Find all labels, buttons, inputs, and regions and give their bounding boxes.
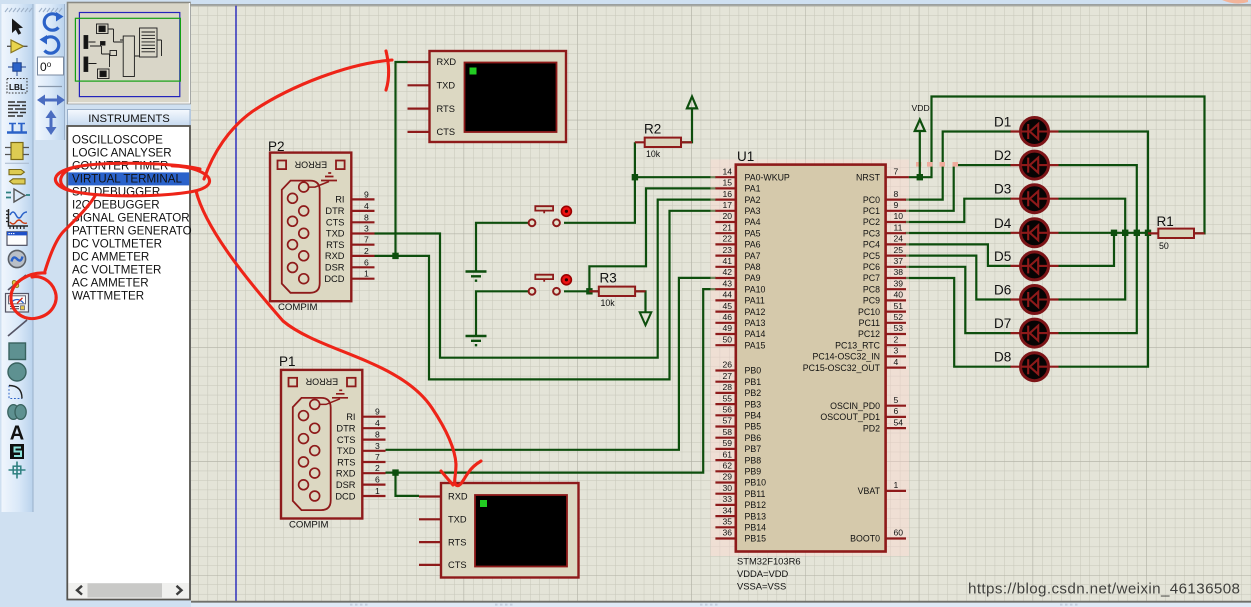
wire U1.PC2 to D3: [905, 199, 1011, 222]
preview sheet rect: [79, 13, 179, 97]
svg-text:11: 11: [894, 222, 903, 232]
wire U1.PC0 to D1: [905, 132, 1011, 200]
svg-text:VDDA=VDD: VDDA=VDD: [737, 568, 789, 579]
svg-text:15: 15: [722, 178, 732, 188]
svg-text:PA14: PA14: [745, 329, 766, 339]
svg-text:PB1: PB1: [745, 377, 762, 387]
P1 DB9 holes: [299, 400, 320, 501]
tb2 icon: rotate clockwise: [44, 14, 58, 30]
svg-text:6: 6: [375, 475, 380, 485]
wire button2 junction to U1.PA1: [564, 188, 716, 291]
svg-text:PA0-WKUP: PA0-WKUP: [745, 172, 790, 182]
svg-text:PA4: PA4: [745, 217, 761, 227]
LED D5: [994, 249, 1059, 280]
svg-text:38: 38: [894, 267, 904, 277]
svg-text:1: 1: [364, 269, 369, 279]
tb icon: text script mode: [8, 102, 26, 116]
svg-text:29: 29: [722, 472, 732, 482]
red stroke from ellipse down to instruments icon circle: [45, 196, 95, 271]
tb icon: chevron tags: [9, 170, 24, 175]
svg-text:U1: U1: [737, 149, 754, 164]
tb icon: junction dot mode: [8, 58, 26, 76]
svg-text:CTS: CTS: [448, 560, 467, 570]
svg-text:56: 56: [722, 405, 732, 415]
svg-text:R3: R3: [600, 271, 617, 286]
wire U1.PC7 to D8: [905, 278, 1011, 367]
U1 left pin stubs PB0-PB15: [715, 371, 735, 539]
svg-text:PA8: PA8: [745, 262, 761, 272]
svg-text:42: 42: [722, 267, 732, 277]
P2 shield ground symbol: [309, 182, 330, 188]
svg-text:61: 61: [722, 449, 732, 459]
wire D8 cathode to bus: [1059, 233, 1149, 367]
svg-text:6: 6: [894, 406, 899, 416]
svg-text:3: 3: [375, 441, 380, 451]
svg-text:PC5: PC5: [863, 251, 880, 261]
tb icon: component mode: [11, 40, 24, 53]
resistor R2: [635, 122, 692, 160]
svg-text:D2: D2: [994, 148, 1011, 163]
svg-text:10: 10: [894, 211, 904, 221]
svg-text:14: 14: [722, 166, 732, 176]
svg-text:3: 3: [894, 346, 899, 356]
svg-text:OSCIN_PD0: OSCIN_PD0: [830, 401, 880, 411]
svg-text:R1: R1: [1157, 214, 1174, 229]
svg-text:PC7: PC7: [863, 273, 880, 283]
junction node P1.RXD: [392, 469, 398, 475]
P2 pin stubs: [351, 199, 374, 278]
junction node LED bus D5: [1111, 230, 1117, 236]
instruments panel header: [68, 110, 191, 127]
ground symbol G1: [466, 272, 487, 281]
wire D7 cathode to bus: [1059, 233, 1137, 333]
svg-text:DSR: DSR: [325, 263, 345, 273]
svg-text:PB11: PB11: [745, 489, 766, 499]
U1 right pin numbers: [894, 166, 904, 537]
wire button2 to ground: [476, 291, 530, 335]
svg-text:CTS: CTS: [437, 127, 456, 137]
preview mini schematic: [84, 24, 162, 79]
junction node P2.RXD: [392, 253, 398, 259]
svg-text:37: 37: [894, 256, 904, 266]
red ellipse around VIRTUAL TERMINAL: [55, 163, 209, 196]
P2 pin numbers: [364, 189, 369, 278]
svg-text:PD2: PD2: [863, 423, 880, 433]
instruments list box: [67, 126, 190, 600]
wire U1.PC5 to D6: [905, 256, 1011, 300]
svg-text:35: 35: [722, 517, 732, 527]
resistor R1: [1148, 214, 1205, 251]
P1 pin labels: [335, 412, 355, 502]
svg-text:23: 23: [722, 245, 732, 255]
svg-text:62: 62: [722, 461, 732, 471]
svg-text:SIGNAL GENERATOR: SIGNAL GENERATOR: [72, 211, 190, 224]
svg-text:TXD: TXD: [448, 515, 467, 525]
tb icon: 2D symbol: [10, 444, 24, 459]
svg-text:VSSA=VSS: VSSA=VSS: [737, 581, 786, 592]
svg-text:2: 2: [894, 334, 899, 344]
svg-text:PA2: PA2: [745, 195, 761, 205]
U1 value labels: [737, 556, 801, 592]
tb2 icon: h-mirror: [44, 99, 58, 102]
U1 selection highlight: [711, 160, 912, 557]
svg-text:43: 43: [722, 278, 732, 288]
svg-text:VBAT: VBAT: [858, 486, 881, 496]
svg-text:50: 50: [1159, 241, 1169, 251]
canvas top strip: [190, 0, 1251, 5]
svg-text:26: 26: [722, 360, 732, 370]
tb icon: selection arrow: [12, 19, 23, 35]
svg-text:PB7: PB7: [745, 444, 762, 454]
svg-text:RTS: RTS: [326, 240, 344, 250]
svg-text:DC VOLTMETER: DC VOLTMETER: [72, 237, 162, 250]
tb2 icon: v-mirror: [50, 117, 53, 128]
svg-text:PA7: PA7: [745, 251, 761, 261]
svg-text:P1: P1: [279, 354, 296, 369]
svg-text:9: 9: [894, 200, 899, 210]
svg-text:9: 9: [375, 407, 380, 417]
P2 DB9 holes: [288, 182, 309, 283]
microcontroller U1 STM32F103R6: [711, 149, 959, 592]
svg-text:59: 59: [722, 438, 732, 448]
svg-text:OSCILLOSCOPE: OSCILLOSCOPE: [72, 133, 163, 146]
svg-text:PC2: PC2: [863, 217, 880, 227]
svg-text:57: 57: [722, 416, 732, 426]
svg-text:PC13_RTC: PC13_RTC: [835, 340, 880, 350]
LEFT-UI: [2, 3, 192, 600]
svg-text:33: 33: [722, 494, 732, 504]
svg-text:D6: D6: [994, 283, 1011, 298]
svg-text:44: 44: [722, 290, 732, 300]
tb icon: virtual instruments mode: [6, 294, 29, 313]
svg-text:7: 7: [375, 452, 380, 462]
svg-text:PB12: PB12: [745, 500, 767, 510]
svg-text:49: 49: [722, 323, 732, 333]
U1 left pin labels: [745, 172, 790, 543]
svg-text:OSCOUT_PD1: OSCOUT_PD1: [820, 412, 880, 422]
svg-text:34: 34: [722, 505, 732, 515]
VDD power arrow (R2): [687, 97, 697, 121]
wire P1.RXD to U1.PA10: [386, 289, 717, 473]
wire U1.NRST to VDD rail and R1: [909, 97, 1205, 234]
wire U1.PC3 to D4: [905, 232, 1011, 234]
svg-text:PA3: PA3: [745, 206, 761, 216]
svg-text:DSR: DSR: [336, 480, 356, 490]
red arrow to VT1 RXD: [204, 60, 392, 179]
ground symbol G2: [466, 336, 487, 345]
wire P2.RXD to U1.PA3: [375, 211, 717, 380]
svg-text:AC AMMETER: AC AMMETER: [72, 276, 149, 289]
svg-text:DCD: DCD: [335, 491, 355, 501]
svg-text:VIRTUAL TERMINAL: VIRTUAL TERMINAL: [72, 172, 183, 185]
svg-text:60: 60: [894, 528, 904, 538]
svg-text:PA6: PA6: [745, 240, 761, 250]
wire D6 cathode to bus: [1059, 233, 1126, 300]
svg-text:BOOT0: BOOT0: [850, 534, 880, 544]
wire VT1.RXD to P2.RXD net: [396, 62, 409, 256]
tb icon: graph mode: [9, 209, 29, 226]
LED D3: [994, 182, 1059, 213]
svg-text:28: 28: [722, 382, 732, 392]
svg-text:PA12: PA12: [745, 307, 766, 317]
wire P1.RXD branch to VT2.RXD: [396, 473, 420, 496]
svg-text:PC10: PC10: [858, 307, 880, 317]
COMPIM P1: [279, 354, 386, 530]
LED D4: [994, 216, 1059, 247]
svg-text:10k: 10k: [646, 149, 661, 159]
svg-text:PC15-OSC32_OUT: PC15-OSC32_OUT: [803, 363, 881, 373]
svg-text:2: 2: [364, 246, 369, 256]
instruments list items: [68, 133, 191, 302]
svg-text:PB8: PB8: [745, 455, 762, 465]
svg-text:PC14-OSC32_IN: PC14-OSC32_IN: [813, 352, 880, 362]
svg-text:PA11: PA11: [745, 296, 765, 306]
svg-text:RXD: RXD: [437, 57, 457, 67]
svg-text:RTS: RTS: [437, 104, 455, 114]
svg-text:7: 7: [364, 235, 369, 245]
svg-text:ERROR: ERROR: [294, 159, 327, 169]
toolbar column 2 background: [36, 4, 65, 140]
wire button1 to ground: [476, 223, 530, 271]
svg-text:AC VOLTMETER: AC VOLTMETER: [72, 263, 161, 276]
svg-text:5: 5: [894, 395, 899, 405]
svg-text:D3: D3: [994, 182, 1011, 197]
P1 shield ground symbol: [320, 399, 341, 405]
virtual terminal VT1: [408, 51, 567, 142]
LED D1: [994, 115, 1059, 146]
svg-text:https://blog.csdn.net/weixin_4: https://blog.csdn.net/weixin_46136508: [968, 581, 1240, 598]
svg-text:PA9: PA9: [745, 273, 761, 283]
svg-text:LOGIC ANALYSER: LOGIC ANALYSER: [72, 146, 172, 159]
tb icon: wire label mode: [7, 79, 27, 94]
wire D4 cathode to R1: [1059, 232, 1149, 234]
wire P2.TXD to U1.PA2: [375, 200, 717, 358]
svg-text:RTS: RTS: [448, 537, 466, 547]
svg-text:PC6: PC6: [863, 262, 880, 272]
resistor R3: [589, 271, 645, 309]
svg-text:45: 45: [722, 301, 732, 311]
svg-text:25: 25: [894, 245, 904, 255]
tb icon: 2D circle: [8, 363, 26, 381]
svg-text:4: 4: [364, 201, 369, 211]
svg-text:53: 53: [894, 323, 904, 333]
svg-text:10k: 10k: [601, 298, 616, 308]
svg-text:54: 54: [894, 417, 904, 427]
svg-text:3: 3: [364, 224, 369, 234]
P2 DB9 shell: [282, 181, 320, 293]
wire D5 cathode to bus: [1059, 233, 1115, 266]
P2 error squares: [278, 161, 287, 170]
svg-text:TXD: TXD: [337, 446, 356, 456]
svg-text:39: 39: [894, 278, 904, 288]
wire P1.TXD to U1.PA9: [386, 278, 717, 450]
svg-text:CTS: CTS: [326, 218, 345, 228]
tb2 rotation edit box: [38, 57, 64, 75]
svg-text:30: 30: [722, 483, 732, 493]
svg-text:51: 51: [894, 301, 904, 311]
svg-text:52: 52: [894, 312, 904, 322]
wire button1 to R2 and U1.PA0: [564, 142, 716, 223]
svg-text:41: 41: [722, 256, 732, 266]
svg-text:CTS: CTS: [337, 435, 356, 445]
svg-text:16: 16: [722, 189, 732, 199]
svg-text:40: 40: [894, 290, 904, 300]
wire D2 cathode to bus: [1059, 165, 1137, 233]
junction node button2/R3: [586, 288, 592, 294]
svg-text:PA1: PA1: [745, 184, 761, 194]
U1 left pin numbers: [722, 166, 732, 537]
corner smudge: [1222, 0, 1248, 4]
red circle around virtual instruments icon: [11, 273, 56, 319]
instruments scrollbar: [69, 583, 190, 598]
svg-text:55: 55: [722, 393, 732, 403]
svg-text:PB9: PB9: [745, 467, 762, 477]
svg-text:4: 4: [894, 357, 899, 367]
svg-text:COMPIM: COMPIM: [289, 519, 328, 530]
svg-text:DTR: DTR: [336, 423, 355, 433]
tb icon: buses mode: [7, 124, 27, 133]
wire D1 cathode to bus: [1059, 132, 1149, 233]
svg-text:A: A: [10, 423, 24, 445]
svg-text:24: 24: [894, 234, 904, 244]
tb icon: 2D line: [8, 320, 27, 336]
svg-text:PB4: PB4: [745, 411, 762, 421]
P2 pin labels: [324, 195, 344, 285]
svg-text:D1: D1: [994, 115, 1011, 130]
push button SW2: [529, 275, 572, 295]
svg-text:PB6: PB6: [745, 433, 762, 443]
svg-text:PB0: PB0: [745, 366, 762, 376]
svg-text:22: 22: [722, 234, 732, 244]
svg-text:PB5: PB5: [745, 422, 762, 432]
P1 pin stubs: [362, 417, 385, 496]
svg-text:PC0: PC0: [863, 195, 880, 205]
svg-text:RXD: RXD: [448, 492, 468, 502]
U1 pink selection dashes: [916, 162, 958, 167]
svg-text:7: 7: [894, 166, 899, 176]
svg-text:8: 8: [364, 212, 369, 222]
svg-text:50: 50: [722, 334, 732, 344]
tb icon: generator mode: [8, 250, 25, 267]
junction node R2/PA0: [632, 174, 638, 180]
junction node LED bus D2/D7: [1134, 230, 1140, 236]
svg-text:PC3: PC3: [863, 228, 880, 238]
tb icon: 2D box: [9, 343, 26, 360]
svg-text:PATTERN GENERATO: PATTERN GENERATO: [72, 224, 192, 237]
tb icon: terminals mode: [6, 193, 30, 198]
LED D2: [994, 148, 1059, 179]
virtual terminal VT2: [419, 483, 579, 578]
VDD power arrow (NRST): [912, 103, 930, 176]
tb icon: markers: [9, 462, 26, 479]
push button SW1: [529, 206, 572, 226]
svg-text:TXD: TXD: [437, 81, 456, 91]
U1 right pin labels: [803, 172, 881, 543]
svg-text:PB10: PB10: [745, 478, 767, 488]
tb icon: voltage probe: [8, 275, 26, 290]
RED-ANNOTATIONS: [11, 51, 481, 486]
tb icon: 2D closed path: [8, 405, 19, 420]
svg-text:PA5: PA5: [745, 228, 761, 238]
svg-text:PC1: PC1: [863, 206, 880, 216]
junction node NRST/VDD: [917, 174, 923, 180]
P1 DB9 shell: [293, 398, 331, 510]
left toolbar column 1 background: [2, 4, 34, 512]
svg-text:PC12: PC12: [858, 329, 880, 339]
svg-text:STM32F103R6: STM32F103R6: [737, 556, 801, 567]
svg-text:RTS: RTS: [337, 457, 355, 467]
svg-text:D4: D4: [994, 216, 1012, 231]
svg-text:RXD: RXD: [325, 251, 345, 261]
svg-text:8: 8: [375, 430, 380, 440]
red curve arrow to VT2 RXD: [196, 191, 481, 486]
svg-text:2: 2: [375, 463, 380, 473]
svg-text:PC8: PC8: [863, 284, 880, 294]
svg-text:6: 6: [364, 257, 369, 267]
U1 right pin stubs: [886, 177, 909, 538]
svg-text:PB3: PB3: [745, 399, 762, 409]
svg-text:RI: RI: [346, 412, 355, 422]
svg-text:1: 1: [375, 486, 380, 496]
COMPIM P2: [268, 139, 375, 313]
svg-text:LBL: LBL: [9, 83, 25, 92]
svg-text:RXD: RXD: [336, 468, 356, 478]
svg-text:COMPIM: COMPIM: [278, 302, 317, 313]
svg-text:DTR: DTR: [325, 206, 344, 216]
sheet border blue lines: [235, 6, 237, 601]
svg-text:1: 1: [894, 480, 899, 490]
svg-text:WATTMETER: WATTMETER: [72, 289, 144, 302]
svg-text:R2: R2: [644, 122, 661, 137]
svg-text:INSTRUMENTS: INSTRUMENTS: [88, 113, 170, 125]
svg-text:46: 46: [722, 312, 732, 322]
svg-text:VDD: VDD: [912, 103, 930, 113]
svg-text:DCD: DCD: [324, 274, 344, 284]
wire U1.PC1 to D2: [905, 165, 1011, 211]
svg-text:PB15: PB15: [745, 534, 767, 544]
tb2 icon: rotate anticlockwise: [45, 37, 59, 53]
svg-text:8: 8: [894, 189, 899, 199]
svg-text:27: 27: [722, 371, 732, 381]
LED D7: [994, 316, 1059, 347]
U1 left pin stubs PA0-PA15: [715, 177, 735, 345]
LED D8: [994, 350, 1059, 381]
junction node LED bus D1/D8: [1145, 230, 1151, 236]
tb icon: subcircuit mode: [11, 143, 23, 160]
svg-text:58: 58: [722, 427, 732, 437]
svg-text:NRST: NRST: [856, 172, 881, 182]
bottom scroll strip: [191, 601, 1251, 603]
preview viewport rect: [75, 18, 180, 81]
wire D3 cathode to bus: [1059, 199, 1126, 233]
svg-text:36: 36: [722, 528, 732, 538]
preview overview window: [68, 3, 191, 104]
P1 error squares: [289, 378, 298, 387]
junction node LED bus D3/D6: [1122, 230, 1128, 236]
tb icon: 2D arc: [9, 386, 22, 399]
svg-text:20: 20: [722, 211, 732, 221]
svg-text:PA10: PA10: [745, 284, 766, 294]
svg-text:D5: D5: [994, 249, 1011, 264]
wire R2 to VDD arrow: [681, 120, 692, 142]
svg-text:RI: RI: [335, 195, 344, 205]
svg-text:PA13: PA13: [745, 318, 766, 328]
svg-text:D8: D8: [994, 350, 1011, 365]
svg-text:PC9: PC9: [863, 296, 880, 306]
svg-text:D7: D7: [994, 316, 1011, 331]
wire R3 to arrow ground: [635, 291, 646, 311]
tb icon: tape recorder: [7, 232, 27, 246]
